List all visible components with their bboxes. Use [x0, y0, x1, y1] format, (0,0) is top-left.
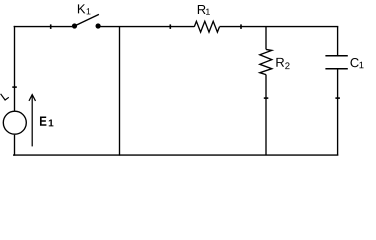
switch K1 contact dot left	[72, 23, 77, 28]
wire middle vertical	[119, 26, 121, 156]
label R1 R	[198, 5, 206, 14]
wire top middle segment	[98, 26, 194, 28]
label E1 E	[40, 116, 46, 125]
resistor R2 zigzag	[260, 49, 272, 74]
source E1 arrow shaft	[31, 95, 33, 147]
node tick on top wire x=170	[169, 24, 171, 29]
label K1 sub 1	[87, 8, 91, 14]
wire left vertical upper	[14, 26, 16, 111]
node tick on R2 branch y=98	[264, 97, 269, 99]
wire top left segment	[14, 26, 73, 28]
node tick on left vertical y=87	[12, 86, 16, 88]
label K1 K	[78, 4, 85, 13]
label R1 sub 1	[206, 9, 210, 15]
source E1 arrow head	[29, 95, 36, 101]
wire C1 branch lower	[337, 69, 339, 155]
wire top right segment	[220, 26, 339, 28]
label C1 sub 1	[359, 62, 363, 69]
resistor R1 zigzag	[194, 21, 219, 32]
wire C1 branch upper	[337, 27, 339, 56]
wire left vertical lower	[14, 135, 16, 156]
label R2 R	[276, 58, 284, 67]
label E1 sub 1	[49, 120, 54, 127]
label R2 sub 2	[285, 62, 289, 69]
wire R2 branch upper	[265, 27, 267, 50]
node tick on top wire x=51	[50, 24, 52, 29]
switch K1 contact dot right	[96, 23, 101, 28]
node tick on top wire x=241	[240, 24, 242, 29]
capacitor C1 top plate	[325, 55, 347, 57]
wire bottom horizontal	[13, 154, 338, 156]
stray check mark at left edge	[1, 94, 9, 100]
switch K1 blade	[76, 14, 99, 25]
source E1 circle	[3, 111, 26, 134]
node tick on C1 branch y=98	[335, 97, 340, 99]
wire R2 branch lower	[265, 75, 267, 156]
label C1 C	[350, 58, 358, 67]
capacitor C1 bottom plate	[325, 68, 347, 70]
